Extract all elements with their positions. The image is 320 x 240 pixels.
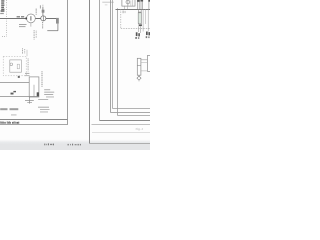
svg-text:Fig. 4: Fig. 4	[136, 127, 144, 131]
